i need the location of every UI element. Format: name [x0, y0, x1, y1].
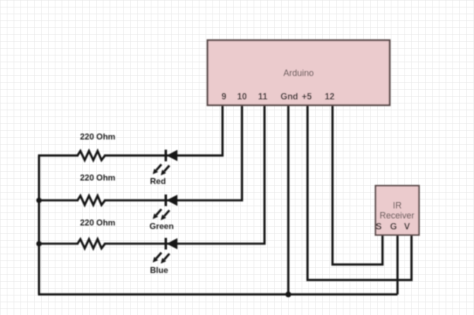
LED D3 blue: emission arrows: [153, 253, 162, 263]
svg-text:11: 11: [258, 92, 267, 102]
svg-text:V: V: [404, 222, 410, 232]
svg-text:Arduino: Arduino: [283, 68, 313, 78]
wire: bottom ground rail: [38, 293, 398, 295]
wire: blue LED row + pin 11 riser: [38, 105, 265, 244]
svg-text:12: 12: [325, 92, 335, 102]
svg-text:Red: Red: [150, 176, 166, 186]
resistor R2 (220 Ohm, green row): [78, 196, 106, 205]
junction node Gnd / bottom rail: [285, 292, 291, 298]
wire: left bus vertical: [38, 156, 40, 295]
LED D1 red: cathode bar: [165, 150, 167, 162]
Arduino U1 body: [208, 40, 390, 105]
svg-text:Green: Green: [150, 221, 174, 231]
wire: pin 12 to IR receiver S pin: [333, 105, 383, 265]
svg-text:Receiver: Receiver: [380, 211, 415, 221]
wire: Gnd drop to bottom rail: [287, 105, 289, 294]
IR receiver U2 body: [376, 186, 420, 235]
svg-text:Gnd: Gnd: [281, 92, 299, 102]
wire: +5 to IR receiver V pin: [308, 105, 412, 280]
svg-text:10: 10: [237, 92, 247, 102]
wire: red LED row + pin 9 riser: [38, 105, 223, 156]
svg-text:220 Ohm: 220 Ohm: [80, 131, 115, 141]
LED D2 green: triangle: [167, 195, 178, 206]
LED D2 green: cathode bar: [165, 195, 167, 207]
wire: green LED row + pin 10 riser: [38, 105, 242, 200]
svg-text:9: 9: [222, 92, 227, 102]
LED D1 red: emission arrows: [153, 164, 162, 174]
LED D3 blue: cathode bar: [165, 238, 167, 250]
resistor R1 (220 Ohm, red row): [78, 151, 106, 160]
junction node on bus at green row: [36, 198, 41, 203]
svg-text:S: S: [376, 222, 382, 232]
LED D2 green: emission arrows: [153, 209, 162, 219]
wire: IR receiver G pin stub to bottom rail: [396, 235, 398, 294]
svg-text:IR: IR: [393, 201, 402, 211]
svg-text:220 Ohm: 220 Ohm: [80, 218, 115, 228]
svg-text:+5: +5: [302, 92, 312, 102]
svg-text:G: G: [390, 222, 397, 232]
LED D3 blue: triangle: [167, 238, 178, 249]
resistor R3 (220 Ohm, blue row): [78, 239, 106, 248]
svg-text:220 Ohm: 220 Ohm: [80, 173, 115, 183]
svg-text:Blue: Blue: [150, 265, 168, 275]
junction node on bus at blue row: [36, 241, 41, 246]
LED D1 red: triangle: [167, 150, 178, 161]
